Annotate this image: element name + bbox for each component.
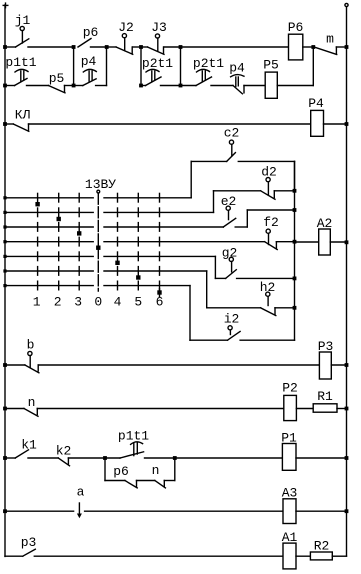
label selector position 3 [74, 295, 82, 310]
wire selector column 0 dashed shaft [97, 190, 100, 291]
node left rail rung n [3, 407, 7, 411]
wire selector row 4 [5, 241, 265, 243]
svg-text:m: m [326, 32, 334, 47]
node right rail rung1 [345, 45, 349, 49]
svg-text:J3: J3 [151, 20, 167, 35]
node D branch junction [179, 84, 183, 88]
wire e2 step up to bus [235, 210, 294, 227]
wire p2t1 second to p4 second [211, 85, 233, 87]
wire node C down to branch2 [140, 47, 142, 86]
wire rung1 rail to contact j1 [5, 46, 16, 48]
node B junction rung1/branch1 right [105, 45, 109, 49]
contact g2 [222, 246, 238, 279]
svg-text:J2: J2 [118, 20, 134, 35]
wire coil P4 to right rail [324, 123, 347, 125]
wire selector row 6 [5, 270, 207, 272]
wire selector row 1 [5, 197, 191, 199]
node right rail rung b [345, 363, 349, 367]
label selector position 0 [94, 295, 102, 310]
wire node D to coil P6 [181, 46, 289, 48]
contact f2 [263, 215, 279, 250]
contact p2t1 second timed [193, 56, 224, 86]
wire row2 riser to d2 [214, 191, 261, 213]
wire contact a to coil A3 [85, 510, 283, 512]
wire selector column 4 [117, 193, 119, 289]
wire coil P5 to node E riser [277, 85, 313, 87]
wire node D down to branch2 [180, 47, 182, 86]
contact p4 second timed NC [229, 61, 245, 94]
wire row6 riser to h2 [207, 271, 261, 308]
wire coil P6 to node E [303, 46, 314, 48]
contact J3 [141, 20, 167, 54]
wire coil P3 to right rail [331, 364, 346, 366]
wire p4 second to coil P5 [244, 85, 265, 87]
svg-text:P5: P5 [263, 58, 279, 73]
resistor R2 [310, 539, 332, 560]
svg-text:p4: p4 [81, 54, 97, 69]
node bus f2 and A2 tap [293, 240, 297, 244]
node selector contact position 3 [77, 231, 81, 235]
wire J3 to node D [164, 46, 181, 48]
node selector contact position 0 [96, 246, 100, 250]
svg-text:p1t1: p1t1 [5, 55, 36, 70]
svg-text:P2: P2 [282, 381, 298, 396]
wire bus to coil A2 [295, 241, 319, 243]
node right rail A2 [345, 240, 349, 244]
contact p4 timed [81, 54, 97, 86]
wire coil P1 to right rail [296, 457, 347, 459]
wire row1 riser to c2 [191, 161, 227, 197]
wire selector column 3 [78, 193, 80, 289]
wire f2 to bus [276, 241, 294, 243]
contact p5 [49, 71, 66, 93]
wire i2 to bus corner [240, 339, 294, 341]
node A2br junction branch1 [72, 84, 76, 88]
wire left supply rail [4, 5, 6, 556]
svg-text:k2: k2 [56, 444, 72, 459]
svg-text:f2: f2 [263, 215, 279, 230]
wire right supply rail [346, 7, 348, 557]
contact n [5, 395, 38, 416]
wire coil A1 to resistor R2 [296, 555, 310, 557]
svg-text:13ВУ: 13ВУ [85, 177, 116, 192]
node left rail row 7 [3, 284, 6, 287]
wire row7 riser to i2 [190, 286, 228, 341]
wire selector column 2 [58, 193, 60, 289]
wire p4 to corner up to node B [96, 47, 107, 86]
wire j1 to node A [28, 46, 74, 48]
wire node F down branch [104, 458, 106, 481]
node left rail rung k1 [3, 456, 7, 460]
svg-text:p3: p3 [21, 535, 37, 550]
wire resistor R1 to right rail [337, 408, 347, 410]
wire КЛ to coil P4 [29, 123, 311, 125]
svg-text:p4: p4 [229, 61, 245, 76]
node left rail row 6 [3, 269, 6, 272]
node selector contact position 4 [115, 261, 119, 265]
svg-text:p2t1: p2t1 [193, 56, 224, 71]
contact p2t1 first timed [142, 56, 173, 86]
node bus h2 [275, 306, 296, 310]
coil P6 [288, 20, 304, 60]
wire g2 to bus [237, 277, 295, 279]
wire p5 to node A2br [65, 85, 74, 87]
label selector switch 13ВУ [85, 177, 116, 192]
wire p6 to node B [91, 46, 107, 48]
svg-text:6: 6 [156, 295, 164, 310]
svg-text:1: 1 [33, 295, 41, 310]
contact p1t1 timed second [105, 429, 149, 459]
wire k1 to k2 [28, 457, 58, 459]
wire selector column 1 [37, 193, 39, 289]
contact КЛ [5, 108, 30, 132]
node bus e2 [293, 208, 297, 212]
terminal plus mark at top of left rail [3, 3, 8, 8]
coil P4 [308, 96, 324, 136]
contact p6 second [113, 464, 137, 488]
svg-text:5: 5 [134, 295, 142, 310]
svg-text:b: b [27, 338, 35, 353]
wire k2 to node F [68, 457, 105, 459]
node G junction parallel branch right [173, 456, 177, 460]
coil A1 [282, 530, 298, 569]
wire node E down to P5 output [312, 47, 314, 86]
contact b [5, 338, 39, 373]
wire m to right rail [336, 46, 346, 48]
wire rail to contact p1t1 [5, 85, 15, 87]
svg-text:4: 4 [114, 295, 122, 310]
node branch2 left [139, 84, 143, 88]
wire branch to p6 second [105, 480, 125, 482]
wire c2 to bus [238, 161, 294, 190]
contact k2 [56, 444, 72, 466]
wire resistor R2 to right rail [332, 555, 346, 557]
contact c2 [224, 126, 240, 162]
node selector contact position 2 [57, 217, 61, 221]
contact J2 [107, 20, 134, 54]
wire coil A3 to right rail [296, 510, 347, 512]
wire p1t1 second to node G [145, 457, 175, 459]
node F junction parallel branch left [103, 456, 107, 460]
svg-text:a: a [77, 485, 85, 500]
node left rail row 2 [3, 211, 6, 214]
node E junction rung1/P5 branch [311, 45, 315, 49]
wire p1t1 to p5 [27, 85, 49, 87]
node D junction rung1/branch2 right [179, 45, 183, 49]
wire selector row 5 [5, 255, 215, 257]
svg-text:p6: p6 [113, 464, 129, 479]
node A junction rung1/branch1 [72, 45, 76, 49]
coil P5 [263, 58, 279, 99]
node right rail rung k1 [345, 456, 349, 460]
wire node A2br to p4 [74, 85, 83, 87]
svg-text:p5: p5 [49, 71, 65, 86]
contact p1t1 timed [5, 55, 36, 86]
node right rail rung n [345, 407, 349, 411]
wire node G to coil P1 [175, 457, 283, 459]
wire p2t1 first to node D branch [161, 85, 181, 87]
label selector position 6 [156, 295, 164, 310]
svg-text:n: n [28, 395, 36, 410]
wire selector column 5 [137, 193, 139, 289]
wire b to coil P3 [38, 364, 319, 366]
svg-text:i2: i2 [224, 312, 240, 327]
label selector position 5 [134, 295, 142, 310]
node left rail row 3 [3, 225, 6, 228]
node left rail to rung KL [3, 122, 7, 126]
svg-text:R1: R1 [317, 389, 333, 404]
svg-text:0: 0 [94, 295, 102, 310]
wire selector row 2 [5, 211, 214, 213]
wire coil P2 to resistor R1 [296, 408, 313, 410]
node selector contact position 6 [157, 290, 161, 294]
label selector position 4 [114, 295, 122, 310]
resistor R1 [313, 389, 337, 412]
wire rail to contact a [5, 510, 74, 512]
coil A2 [317, 216, 333, 255]
svg-text:P6: P6 [288, 20, 304, 35]
contact p6 [78, 25, 98, 47]
node left rail row 5 [3, 255, 6, 258]
contact i2 [224, 312, 240, 341]
node selector contact position 1 [35, 202, 39, 206]
wire collector bus vertical [294, 161, 296, 340]
contact n second [152, 463, 166, 488]
wire p6 second to n second [137, 480, 155, 482]
svg-text:P4: P4 [308, 96, 324, 111]
contact a plunger [77, 485, 85, 519]
terminal circle at top of right rail [345, 3, 348, 6]
contact h2 [260, 280, 276, 316]
svg-text:c2: c2 [224, 126, 240, 141]
wire selector column 6 [159, 193, 161, 296]
wire node A down to branch1 [73, 47, 75, 86]
node bus g2 [293, 277, 297, 281]
node left rail to rung1 [3, 45, 7, 49]
contact p3 [5, 535, 36, 556]
svg-text:p2t1: p2t1 [142, 56, 173, 71]
node C junction rung1/branch2 [139, 45, 143, 49]
node left rail rung a [3, 509, 7, 513]
svg-text:p6: p6 [83, 25, 99, 40]
node left rail row 4 [3, 240, 6, 243]
node right rail rung a [345, 509, 349, 513]
wire p3 to coil A1 [34, 555, 283, 557]
wire coil A2 to right rail [330, 241, 346, 243]
label selector position 2 [54, 295, 62, 310]
node left rail rung b [3, 363, 7, 367]
contact d2 [261, 165, 277, 200]
wire n second to node G riser [164, 458, 175, 481]
svg-text:n: n [152, 463, 160, 478]
contact e2 [221, 194, 237, 227]
svg-text:2: 2 [54, 295, 62, 310]
node left rail to branch1 [3, 84, 7, 88]
node selector contact position 5 [136, 275, 140, 279]
coil P1 [281, 431, 297, 471]
svg-text:3: 3 [74, 295, 82, 310]
wire node C branch to p2t1 first [141, 85, 146, 87]
coil P3 [318, 339, 334, 379]
wire n to coil P2 [37, 408, 283, 410]
svg-text:p1t1: p1t1 [118, 429, 149, 444]
wire row5 riser to g2 [215, 256, 225, 278]
contact m [314, 32, 337, 55]
contact k1 [5, 438, 37, 459]
svg-text:R2: R2 [314, 539, 330, 554]
wire selector row 3 [5, 226, 223, 228]
wire J2 to node C [133, 46, 141, 48]
label selector position 1 [33, 295, 41, 310]
svg-text:КЛ: КЛ [15, 108, 31, 123]
coil A3 [282, 486, 298, 524]
node bus d2 [274, 189, 296, 193]
coil P2 [282, 381, 298, 421]
node left rail row 1 [3, 196, 6, 199]
node right rail rung KL [345, 122, 349, 126]
wire selector row 7 [5, 285, 190, 287]
contact j1 [15, 13, 31, 47]
wire node D branch to p2t1 second [181, 85, 197, 87]
